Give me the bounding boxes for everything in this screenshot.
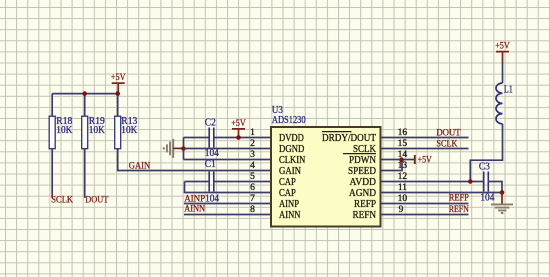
svg-text:AGND: AGND [349,188,376,199]
svg-text:10K: 10K [89,125,106,136]
svg-text:2: 2 [250,139,255,149]
svg-text:DRDY/DOUT: DRDY/DOUT [322,133,377,144]
svg-text:12: 12 [398,172,408,182]
wire L1 down to pin12 row [470,124,502,182]
wire +5V to L1 [502,62,504,83]
wire pin14 to +5V [381,159,415,161]
svg-text:CLKIN: CLKIN [279,155,306,166]
svg-text:AINN: AINN [279,210,301,221]
svg-text:REFP: REFP [354,199,376,210]
svg-text:7: 7 [250,194,255,204]
junction gnd bus pin2 [181,146,186,151]
resistor R19 [82,116,106,149]
svg-text:10K: 10K [56,125,73,136]
svg-text:REFP: REFP [449,193,469,203]
power +5V at pin14 sideways [415,155,432,165]
svg-text:REFN: REFN [449,204,470,214]
wire C2 to pin1 [214,137,272,139]
svg-text:AINP: AINP [184,194,205,204]
wire pin3 CLKIN [184,159,273,161]
wire R19 top lead [84,94,86,117]
svg-text:C2: C2 [205,118,216,129]
wire R13 bottom GAIN net to pin 4 [118,149,272,171]
junction pin11 gnd [500,190,505,195]
svg-text:104: 104 [205,148,219,159]
svg-text:AINN: AINN [184,204,205,214]
wire pin2 DGND [184,148,273,150]
wire pin15 SCLK [381,148,469,150]
svg-text:4: 4 [250,161,255,171]
wire pin8 AINN [184,214,272,216]
svg-text:ADS1230: ADS1230 [272,115,306,126]
svg-text:+5V: +5V [418,155,432,165]
pin name PDWN with overbar [343,154,376,167]
svg-text:SPEED: SPEED [348,166,376,177]
junction R19 top [82,91,87,96]
svg-text:DGND: DGND [279,144,305,155]
svg-text:+5V: +5V [231,119,246,129]
capacitor C2 [205,118,219,159]
wire pin10 REFP [381,203,469,205]
svg-text:CAP: CAP [279,188,296,199]
IC U3 ADS1230 [271,105,381,227]
wire pin11 AGND [381,192,503,194]
svg-text:REFN: REFN [353,210,377,221]
power +5V at pin1 [231,119,246,138]
svg-text:L1: L1 [504,85,513,96]
svg-text:3: 3 [250,150,255,160]
power +5V top right [495,41,510,62]
wire R18 top lead [51,94,53,117]
wire top bus R18-R19-R13 [52,93,118,95]
resistor R13 [115,116,138,149]
svg-text:C1: C1 [205,159,216,170]
svg-text:SCLK: SCLK [436,139,458,149]
svg-text:+5V: +5V [111,73,126,83]
svg-text:DOUT: DOUT [436,128,461,138]
wire C1 left to pin5 row [185,181,210,183]
pin name DRDY/DOUT with overbar [322,132,377,145]
svg-text:SCLK: SCLK [51,195,73,205]
wire pin16 DOUT [381,137,469,139]
wire C3 right down to pin11 row [488,182,502,193]
wire C1 right to pin5 [214,181,272,183]
svg-text:AVDD: AVDD [350,177,377,188]
svg-text:10: 10 [398,194,408,204]
svg-text:DOUT: DOUT [85,195,109,205]
wire pin12 AVDD to C3 [381,181,484,183]
svg-text:9: 9 [399,205,404,215]
svg-text:11: 11 [398,183,407,193]
junction R13 top +5V [115,91,120,96]
svg-text:DVDD: DVDD [279,133,304,144]
svg-text:15: 15 [398,139,408,149]
wire pin13 jog up to pin14 [381,160,403,171]
svg-text:16: 16 [398,128,408,138]
wire pin1 row to C2 [184,137,210,139]
svg-text:104: 104 [480,192,494,203]
junction pin1 +5V [236,135,241,140]
inductor L1 [496,83,513,124]
capacitor C3 [479,162,495,204]
svg-text:GAIN: GAIN [279,166,301,177]
ground symbol bottom right [491,193,513,214]
wire gnd bus vertical p1-p3 [183,138,185,160]
wire R18 bottom to SCLK label [51,149,53,198]
svg-text:5: 5 [250,172,255,182]
resistor R18 [49,116,73,149]
svg-text:CAP: CAP [279,177,296,188]
wire pin9 REFN [381,214,469,216]
wire pin7 AINP [184,203,272,205]
wire R13 top lead [117,94,119,117]
svg-text:GAIN: GAIN [129,161,151,171]
svg-text:8: 8 [250,205,255,215]
svg-text:C3: C3 [479,162,490,173]
ground symbol left (digital gnd) [164,139,184,158]
svg-text:PDWN: PDWN [349,155,376,166]
svg-text:AINP: AINP [279,199,299,210]
svg-text:6: 6 [250,183,255,193]
svg-text:+5V: +5V [495,41,510,51]
wire C1 loop down to pin6 [185,182,273,193]
junction pin13/14 [399,157,404,162]
svg-text:10K: 10K [121,125,138,136]
junction pin12/L1 [468,179,473,184]
capacitor C1 [205,159,219,204]
power +5V above R13 [111,73,126,94]
svg-text:1: 1 [250,128,255,138]
wire R19 bottom to DOUT label [84,149,86,198]
